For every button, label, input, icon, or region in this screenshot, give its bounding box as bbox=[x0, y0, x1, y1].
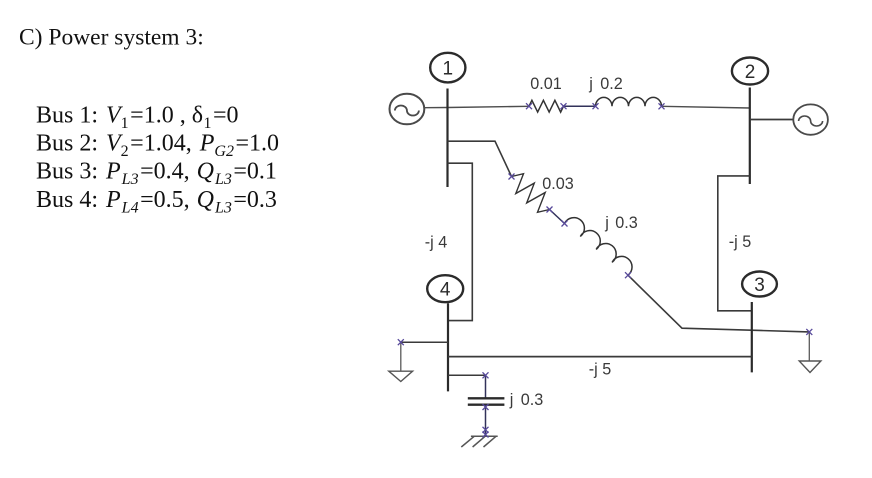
wire bus 4 to left ground bbox=[401, 341, 448, 343]
svg-text:0.01: 0.01 bbox=[530, 75, 562, 93]
svg-text:Bus 1:: Bus 1: bbox=[36, 103, 98, 129]
bus 4 bar bbox=[447, 303, 449, 391]
svg-text:Bus 4:: Bus 4: bbox=[36, 187, 98, 213]
svg-text:1: 1 bbox=[443, 59, 454, 80]
node inductor j0.2 left bbox=[593, 103, 599, 109]
svg-text:3: 3 bbox=[754, 275, 765, 296]
node above earth ground bbox=[483, 427, 489, 433]
ground (left of bus 4) bbox=[389, 371, 413, 381]
wire bus1 to branch 1-3 bbox=[448, 141, 512, 176]
node ground left bbox=[398, 339, 404, 345]
svg-text:-j 5: -j 5 bbox=[729, 233, 752, 251]
bus 2 bar bbox=[749, 88, 751, 185]
line 4-3 reactance -j5 (bottom) bbox=[448, 356, 752, 358]
node resistor 0.03 top bbox=[509, 174, 515, 180]
node resistor 0.01 left bbox=[526, 103, 532, 109]
wire inductor to bus 3 area bbox=[628, 275, 809, 332]
svg-text:2: 2 bbox=[745, 62, 756, 83]
generator G1 bbox=[390, 94, 425, 125]
bus 1 bar bbox=[446, 89, 448, 188]
node capacitor stub bbox=[483, 372, 489, 378]
node capacitor bottom plate bbox=[483, 404, 489, 410]
svg-text:-j 5: -j 5 bbox=[589, 361, 612, 379]
inductor j0.3 bbox=[564, 213, 636, 275]
inductor j0.2 bbox=[596, 97, 662, 106]
node resistor 0.01 right bbox=[561, 103, 567, 109]
wire resistor to inductor (branch 1-3) bbox=[550, 210, 565, 224]
svg-text:V2=1.04, PG2=1.0: V2=1.04, PG2=1.0 bbox=[106, 131, 279, 161]
line 1-4 reactance -j4 bbox=[448, 163, 473, 320]
generator G2 bbox=[793, 104, 828, 134]
wire resistor to inductor bbox=[564, 105, 596, 107]
wire G1 to bus 1 and on to resistor bbox=[424, 106, 529, 107]
node ground right bbox=[806, 329, 812, 335]
svg-text:Bus 2:: Bus 2: bbox=[36, 131, 98, 157]
bus 1 circle bbox=[430, 53, 465, 83]
svg-text:4: 4 bbox=[440, 280, 451, 301]
wire capacitor to ground bbox=[485, 405, 487, 434]
bus 4 circle bbox=[427, 275, 463, 302]
wire to ground at bus 3 bbox=[808, 332, 810, 361]
bus 2 circle bbox=[732, 58, 768, 85]
svg-text:Bus 3:: Bus 3: bbox=[36, 159, 98, 185]
resistor 0.03 bbox=[512, 174, 550, 213]
svg-text:0.03: 0.03 bbox=[542, 175, 574, 193]
node inductor j0.2 right bbox=[659, 103, 665, 109]
node inductor j0.3 top bbox=[562, 221, 568, 227]
line 2-3 reactance -j5 bbox=[718, 176, 752, 311]
node resistor 0.03 bottom bbox=[547, 207, 553, 213]
wire bus 4 to shunt capacitor bbox=[448, 374, 486, 376]
svg-text:-j 4: -j 4 bbox=[425, 234, 448, 252]
bus 3 bar bbox=[751, 302, 753, 372]
wire inductor to bus 2 bbox=[662, 106, 750, 108]
capacitor j0.3 bbox=[468, 397, 505, 399]
node at earth ground bbox=[483, 432, 489, 438]
node inductor j0.3 bottom bbox=[625, 272, 631, 278]
resistor 0.01 bbox=[529, 100, 564, 112]
wire bus 2 to G2 bbox=[750, 119, 794, 121]
node x-marks (purple crosses) bbox=[398, 103, 813, 437]
svg-text:C) Power system 3:: C) Power system 3: bbox=[19, 25, 204, 51]
hatched earth ground below capacitor bbox=[461, 436, 497, 447]
bus 3 circle bbox=[742, 272, 777, 297]
ground (right of bus 3) bbox=[799, 361, 821, 373]
